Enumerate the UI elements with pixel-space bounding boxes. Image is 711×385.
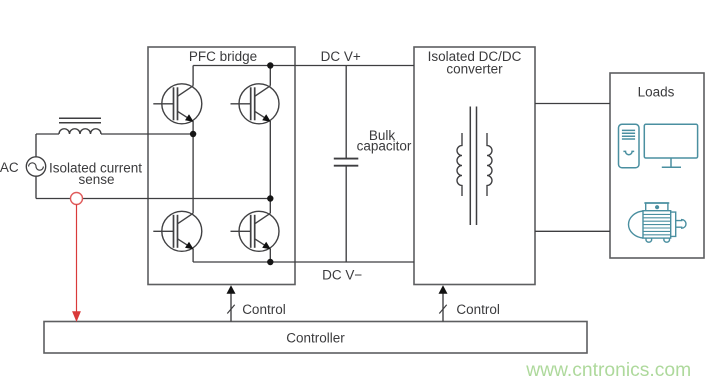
svg-text:AC: AC [0,160,19,175]
svg-text:DC V−: DC V− [322,268,362,283]
svg-text:Loads: Loads [638,85,675,100]
svg-text:PFC bridge: PFC bridge [189,49,257,64]
svg-text:Control: Control [242,302,286,317]
svg-text:converter: converter [446,62,503,77]
svg-text:capacitor: capacitor [357,138,412,153]
svg-text:www.cntronics.com: www.cntronics.com [525,360,691,381]
svg-text:Controller: Controller [286,331,345,346]
svg-text:sense: sense [78,172,114,187]
svg-text:Control: Control [456,302,500,317]
svg-text:DC V+: DC V+ [321,49,361,64]
